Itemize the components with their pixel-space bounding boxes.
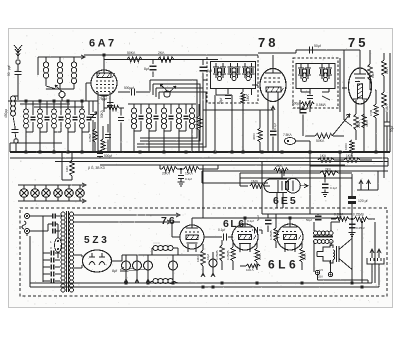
capacitor tap bypass 1 <box>43 252 50 254</box>
junction tuning 3 <box>52 99 55 102</box>
wire filter to xfmr <box>55 215 62 217</box>
wire right low <box>383 108 385 152</box>
resistor 6L6b cathode <box>300 248 304 262</box>
wire border right vert <box>389 53 391 152</box>
wire rail D <box>100 164 345 166</box>
wire osc loop 4 <box>137 92 206 147</box>
transformer output core <box>313 235 333 237</box>
svg-text:7.5ΚΛ: 7.5ΚΛ <box>283 133 293 137</box>
svg-text:1ΜΛ: 1ΜΛ <box>385 67 389 74</box>
wire tap 3 <box>74 254 83 256</box>
svg-text:250Λ: 250Λ <box>258 253 262 260</box>
wire drop x340 <box>339 152 341 218</box>
tube 76 plate <box>186 227 198 229</box>
coil IFT2 sec center <box>323 69 327 73</box>
resistor 2k top <box>158 57 174 62</box>
tube 6L6a stem <box>239 244 241 252</box>
lamp dial 1 <box>20 189 29 198</box>
coil osc tickler <box>191 104 193 108</box>
svg-text:25Λ: 25Λ <box>318 275 323 279</box>
tube 6L6b envelope <box>277 224 303 250</box>
resistor 100 ohm <box>350 140 354 152</box>
svg-text:0.5Μ: 0.5Μ <box>369 109 373 116</box>
svg-text:0.1μf: 0.1μf <box>247 219 254 223</box>
svg-text:6L6: 6L6 <box>268 258 299 272</box>
resistor 6A7 grid leak <box>101 139 105 152</box>
capacitor 6A7 cathode <box>105 134 111 136</box>
lamp dial 6 <box>76 189 85 198</box>
transformer output primary <box>314 231 318 235</box>
svg-text:0.1μf: 0.1μf <box>330 186 337 190</box>
wire 5Z3 out <box>112 260 123 262</box>
coil tuning L4 <box>25 101 27 109</box>
resistor 0.25M right <box>382 92 387 108</box>
wire IFT2 links <box>300 89 302 93</box>
wire top rail 2 <box>104 59 218 61</box>
wire osc loop 1 <box>140 80 197 138</box>
svg-text:◌◌◌◌: ◌◌◌◌ <box>153 241 160 245</box>
resistor 1M right <box>382 60 387 76</box>
capacitor osc coupling <box>118 117 124 119</box>
wire tuning rail nested 2 <box>20 103 70 105</box>
resistor volume 50k <box>315 133 333 138</box>
potentiometer volume wiper <box>332 114 350 136</box>
wire rail B <box>10 157 388 159</box>
wire IFT2 drops <box>299 100 301 112</box>
svg-text:5Z3: 5Z3 <box>84 235 110 246</box>
tube 78 heater arrow <box>271 106 275 110</box>
wire switch to tuning rail <box>37 57 39 75</box>
jack phono <box>285 138 296 145</box>
svg-text:8μf: 8μf <box>207 69 212 73</box>
svg-text:50ΚΛ: 50ΚΛ <box>127 51 136 55</box>
capacitor filter 3 <box>147 255 149 261</box>
capacitor coupling second <box>254 227 256 234</box>
tube 75 plate <box>354 73 366 75</box>
svg-text:500μμf: 500μμf <box>124 86 134 90</box>
speaker former <box>336 246 338 262</box>
wire drop x352 <box>351 174 353 190</box>
wire top right <box>258 52 296 54</box>
tube 6E5 envelope <box>264 179 287 193</box>
ground divider <box>180 179 182 182</box>
svg-text:50ΚΛ: 50ΚΛ <box>100 109 104 118</box>
wire audio B rail <box>192 217 340 219</box>
wire main ground bus <box>10 151 390 153</box>
wire top rail to 78 <box>218 54 258 56</box>
capacitor line filter 3 <box>52 229 54 234</box>
terminal speaker 1 <box>315 270 319 274</box>
wire divider mid <box>160 168 162 170</box>
IF transformer 1 inner frame <box>211 62 256 89</box>
wire tap 1 <box>74 214 179 216</box>
svg-text:50ΚΛ: 50ΚΛ <box>316 139 325 143</box>
resistor 2k <box>320 171 338 175</box>
wire 220 down <box>355 130 357 140</box>
tube 78 plate <box>265 72 281 74</box>
wire top rail 1 <box>84 54 218 56</box>
tube 6L6a envelope <box>232 224 258 250</box>
resistor 300 ohm bias <box>258 128 262 142</box>
transformer output secondary <box>314 240 318 244</box>
coil IFT1 sec center <box>246 68 250 72</box>
resistor 0.25M grid 1 <box>220 245 224 261</box>
fuse power <box>55 238 62 252</box>
wire plug pins base <box>357 189 372 191</box>
chassis dashed box <box>20 208 387 296</box>
tube 76 envelope <box>180 225 204 249</box>
coil IFT2 pri center <box>302 69 306 73</box>
svg-text:2ΚΛ: 2ΚΛ <box>325 168 332 172</box>
tube 78 stem <box>267 92 269 152</box>
wire speaker return <box>317 275 319 280</box>
svg-text:320Λ: 320Λ <box>365 120 369 127</box>
tube 6L6a plate <box>238 226 252 228</box>
wire tap 4 <box>74 267 83 269</box>
svg-text:120 μf: 120 μf <box>358 199 368 203</box>
wire tap 2 <box>74 221 170 223</box>
capacitor IFT2 bottom <box>307 95 313 97</box>
tube 78 cathode <box>266 87 281 92</box>
svg-text:10μf: 10μf <box>206 254 210 260</box>
pickup socket <box>367 258 384 264</box>
resistor osc grid leak <box>196 116 201 130</box>
svg-text:25μf: 25μf <box>219 98 223 104</box>
lamp dial 2 <box>31 189 40 198</box>
wire bottom rail 1 <box>30 282 372 284</box>
capacitor filter 4 <box>172 255 174 261</box>
wire 6E5 stems <box>276 193 278 209</box>
tube 75 anode bar <box>358 84 363 98</box>
tube 76 grid <box>185 231 199 233</box>
tube 6L6b stem <box>284 244 286 252</box>
svg-text:1ΜΛ: 1ΜΛ <box>246 94 250 101</box>
capacitor line filter 1 <box>52 214 54 219</box>
speaker field coil magnet <box>317 245 333 263</box>
capacitor IFT1 sec b <box>248 66 254 68</box>
svg-text:μμf: μμf <box>7 65 11 70</box>
capacitor divider 0.1uf <box>180 169 182 174</box>
wire tuning rail nested 3 <box>34 106 84 108</box>
coil band L2 <box>59 57 61 62</box>
capacitor 50uuf top <box>309 47 311 54</box>
wire right vertical 1 <box>383 53 385 60</box>
plug terminal bottom <box>25 229 30 234</box>
node antenna terminal <box>16 60 20 64</box>
resistor 20k <box>162 166 177 171</box>
capacitor IFT1 sec a <box>242 66 248 68</box>
capacitor 0.1 bias <box>270 130 277 132</box>
terminal speaker 2 <box>328 272 332 276</box>
IF transformer 2 box <box>293 58 338 108</box>
capacitor osc trim C11 <box>155 104 157 114</box>
capacitor 500uuf det <box>300 108 307 110</box>
tube 78 envelope <box>260 69 286 102</box>
transformer core <box>66 211 68 292</box>
resistor 1M avc <box>61 152 63 180</box>
wire 75 down right <box>375 90 377 104</box>
ground output cap <box>351 230 353 233</box>
svg-text:0.25ΜΛ: 0.25ΜΛ <box>215 250 219 260</box>
svg-text:100 Λ: 100 Λ <box>246 268 254 272</box>
capacitor IFT2 pri a <box>298 67 304 69</box>
capacitor trimmer C6 <box>60 101 62 115</box>
wire 6E5 top <box>283 170 285 176</box>
svg-text:0.1ΜΛ: 0.1ΜΛ <box>334 213 344 217</box>
tube 6A7 envelope <box>91 70 117 96</box>
coil osc L10 <box>133 104 135 108</box>
wire audio top2 <box>262 213 352 215</box>
capacitor filter 2 <box>136 255 138 261</box>
svg-text:5μμf: 5μμf <box>256 215 260 221</box>
capacitor trimmer C5 <box>46 101 48 115</box>
svg-text:0.1μf: 0.1μf <box>218 228 225 232</box>
svg-text:0.1μf: 0.1μf <box>273 123 277 130</box>
capacitor trimmer C7 <box>74 101 76 115</box>
svg-text:100Λ: 100Λ <box>344 143 348 150</box>
capacitor filter 1 <box>125 255 127 261</box>
svg-text:1ΜΛ: 1ΜΛ <box>196 256 200 262</box>
capacitor trimmer C8 <box>88 101 90 115</box>
tube 6A7 plate <box>97 73 111 78</box>
wire rail E <box>310 165 388 167</box>
arrowhead bank top <box>81 55 85 59</box>
wire drop x362 <box>361 222 363 283</box>
wire right mid <box>383 76 385 92</box>
svg-text:1ΚΛ: 1ΚΛ <box>346 154 353 158</box>
resistor 2k center <box>274 168 288 172</box>
svg-text:75μμf: 75μμf <box>99 97 107 101</box>
capacitor 500uuf inverter <box>265 219 272 221</box>
resistor 1k second <box>344 158 360 162</box>
junction bus a <box>98 150 101 153</box>
svg-text:50: 50 <box>7 72 11 76</box>
svg-text:2ΚΛ: 2ΚΛ <box>276 164 282 168</box>
capacitor tap bypass 3 <box>43 266 50 268</box>
wire heater link 78 <box>203 109 273 111</box>
tube 6A7 grids <box>96 81 114 92</box>
wire drop x352b <box>351 210 353 282</box>
tube 78 grids <box>264 78 280 82</box>
svg-text:0.25ΜΛ: 0.25ΜΛ <box>226 250 230 260</box>
resistor 320 ohm <box>362 114 366 128</box>
coil osc L13 <box>178 104 180 108</box>
wire if2 vert a <box>339 58 341 112</box>
wire secondary left column <box>42 216 44 282</box>
tube 6L6a grids <box>237 231 251 233</box>
capacitor antenna 50pF <box>15 71 22 73</box>
ground 6E5 bypass <box>324 190 326 193</box>
wire 6E5 out <box>300 185 307 187</box>
lamp dial 3 <box>42 189 51 198</box>
svg-text:1ΚΛ: 1ΚΛ <box>320 154 327 158</box>
capacitor IFT2 sec a <box>319 67 325 69</box>
resistor 1M right upper <box>368 64 372 80</box>
capacitor IFT1 mid a <box>227 66 233 68</box>
tube 75 stem <box>355 100 357 104</box>
wire rail C <box>55 161 388 163</box>
capacitor osc trim C12 <box>170 104 172 114</box>
capacitor tap bypass 5 <box>43 280 50 282</box>
speaker voice coil turns <box>333 250 335 260</box>
svg-text:220Λ: 220Λ <box>357 120 361 128</box>
tube 76 stem <box>187 244 189 252</box>
tube 75 envelope <box>349 68 372 104</box>
capacitor 6E5 bypass <box>322 183 329 185</box>
wire stair right <box>387 158 389 166</box>
tube 76 cathode <box>186 235 198 240</box>
pickup plug left <box>371 250 373 258</box>
capacitor IFT2 pri b <box>305 67 311 69</box>
wire output xfmr leads <box>313 222 315 231</box>
capacitor line filter 2 <box>52 222 54 227</box>
resistor 15k <box>184 166 199 171</box>
wire avc line left <box>10 142 62 144</box>
wire 6E5 rail <box>240 177 352 179</box>
svg-text:75: 75 <box>348 35 368 50</box>
wire drop x375 <box>374 222 376 283</box>
svg-text:6A7: 6A7 <box>89 38 117 50</box>
coil tuning L7 <box>67 101 69 109</box>
svg-text:0.25μf: 0.25μf <box>356 226 365 230</box>
pickup plug right <box>378 250 380 258</box>
wire plug bottom <box>29 230 48 232</box>
switch power <box>22 221 26 229</box>
svg-text:500μf: 500μf <box>292 102 300 106</box>
tube 6A7 cathode <box>98 94 110 96</box>
resistor 0.5M mid right <box>374 104 378 118</box>
tube 6L6b cathode <box>284 235 297 240</box>
tube 6L6a cathode <box>239 235 252 240</box>
svg-text:1ΜΛ: 1ΜΛ <box>371 72 375 78</box>
capacitor tap bypass 2 <box>43 259 50 261</box>
wire drop x262 <box>261 162 263 214</box>
wire if2 vert b <box>343 53 345 120</box>
coil IFT1 mid center <box>232 68 236 72</box>
svg-text:78: 78 <box>258 35 278 50</box>
junction 6A7 top <box>102 53 105 56</box>
wire lamps bottom <box>18 200 84 202</box>
capacitor IFT1 pri a <box>213 66 219 68</box>
svg-text:β Ĝ, 3Β Κ3: β Ĝ, 3Β Κ3 <box>88 165 105 170</box>
antenna <box>14 45 22 59</box>
node antenna jack <box>14 139 18 143</box>
wire drop x282 <box>281 170 283 178</box>
wire bottom left drop <box>29 236 31 287</box>
resistor 220 ohm <box>354 114 358 130</box>
wire IFT1 drops <box>214 95 216 152</box>
svg-text:50μf: 50μf <box>390 126 394 132</box>
resistor 50k osc <box>107 105 119 110</box>
capacitor 50uf right edge <box>384 121 391 123</box>
resistor 6E5 1M <box>250 184 264 188</box>
wire volume left <box>305 135 315 137</box>
choke filter 1 <box>153 246 158 251</box>
svg-text:0.25ΜΛ: 0.25ΜΛ <box>353 213 365 217</box>
capacitor osc trim C13 <box>185 104 187 114</box>
capacitor IFT1 mid b <box>234 66 240 68</box>
junction tuning 5 <box>80 99 83 102</box>
wire drop x203 <box>202 165 204 218</box>
svg-text:450μμ: 450μμ <box>4 109 8 118</box>
wire 6E5 feed <box>239 173 241 186</box>
wire pickup down <box>371 264 373 283</box>
svg-text:0.5ΜΛ: 0.5ΜΛ <box>316 103 327 107</box>
wire bottom rail 2 <box>30 286 379 288</box>
wire B plus <box>152 254 203 256</box>
tube 6L6b plate <box>283 226 297 228</box>
resistor 100 ohm a <box>246 264 260 268</box>
capacitor trimmer C4 <box>32 101 34 115</box>
tube 75 diode plates <box>355 77 365 79</box>
wire drop x310 <box>309 141 311 214</box>
tube 6L6b grids <box>282 231 296 233</box>
plug pin right of cap <box>368 181 370 190</box>
coil band L3 <box>73 57 75 62</box>
capacitor 120uf black <box>351 190 353 196</box>
svg-text:50μf: 50μf <box>306 218 312 222</box>
resistor 0.25M output <box>354 217 368 221</box>
wire plug top <box>29 215 52 217</box>
capacitor antenna series <box>12 129 19 131</box>
resistor IFT1 1M <box>241 92 245 103</box>
svg-text:20ΚΛ: 20ΚΛ <box>162 172 171 176</box>
coil IFT1 pri center <box>217 68 221 72</box>
coil antenna primary <box>11 96 16 101</box>
IF transformer 1 box <box>207 55 258 103</box>
svg-text:2ΚΛ: 2ΚΛ <box>158 51 165 55</box>
transformer secondary winding <box>70 212 74 216</box>
capacitor avc 500uuf <box>97 153 103 155</box>
svg-text:500μf: 500μf <box>104 154 112 158</box>
capacitor osc trim C10 <box>140 104 142 114</box>
coil osc L12 <box>163 104 165 108</box>
capacitor 8uf screen <box>152 60 154 65</box>
transformer primary winding <box>61 212 65 216</box>
capacitor tap bypass 4 <box>43 273 50 275</box>
svg-text:300Λ: 300Λ <box>252 133 256 140</box>
wire lamps top <box>18 184 84 186</box>
capacitor 0.25uf output <box>349 223 356 225</box>
coil osc L11 <box>148 104 150 108</box>
capacitor 76 cathode 10uf <box>209 259 217 267</box>
capacitor IFT1 pri b <box>220 66 226 68</box>
tube 5Z3 envelope <box>83 250 112 272</box>
capacitor 75uuf <box>107 102 114 104</box>
resistor 0.25M inverter <box>274 228 278 241</box>
svg-text:50μf: 50μf <box>314 44 321 48</box>
svg-text:0.25ΜΛ: 0.25ΜΛ <box>269 230 273 240</box>
resistor 50k top <box>127 57 142 62</box>
capacitor IFT2 sec b <box>326 67 332 69</box>
IF transformer 2 inner frame <box>296 64 335 89</box>
lamp dial 4 <box>54 189 63 198</box>
capacitor IFT1 25uuf <box>225 95 231 97</box>
svg-text:1ΜΛ: 1ΜΛ <box>65 166 69 172</box>
tube 6A7 stem wires <box>103 55 105 62</box>
capacitor coupling 0.1uf <box>204 236 222 238</box>
svg-text:15ΚΛ: 15ΚΛ <box>185 172 194 176</box>
wire IFT1 links <box>215 89 217 96</box>
junction tuning 4 <box>66 99 69 102</box>
wire rail F <box>202 170 388 172</box>
capacitor 8uf screen 2 <box>202 60 204 66</box>
tube 5Z3 plates <box>89 256 95 258</box>
wire osc loop stubs <box>149 80 151 92</box>
plug pin left of cap <box>360 181 362 190</box>
resistor 6L6a cathode <box>255 248 259 262</box>
capacitor 500uuf osc <box>118 91 130 93</box>
